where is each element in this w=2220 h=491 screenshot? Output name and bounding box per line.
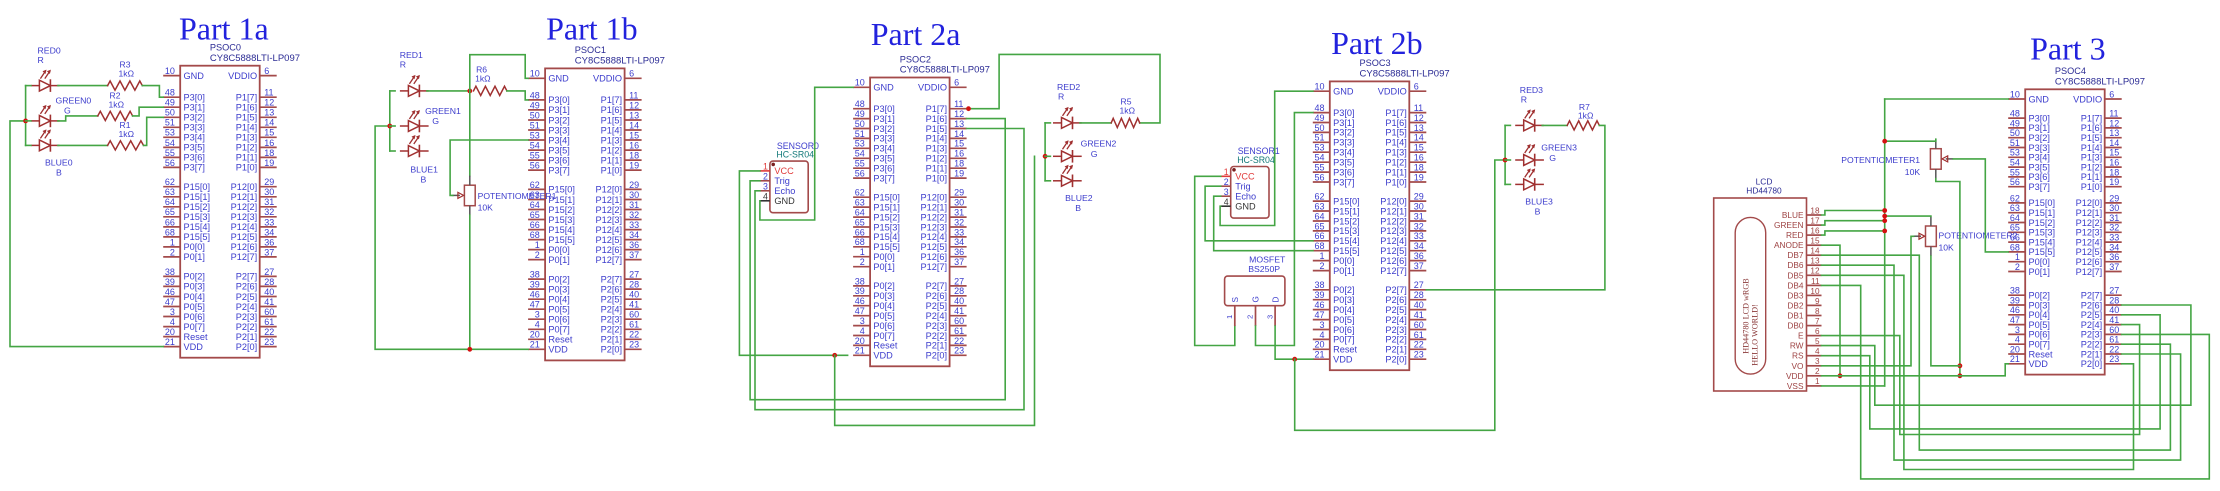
PSOC1 right pin group 1: pins 6	[593, 69, 642, 84]
PSOC1 right pin group 3: pins 29/30/31/32/33/34/36/37	[596, 180, 642, 265]
svg-text:38: 38	[1314, 280, 1324, 290]
svg-text:33: 33	[264, 217, 274, 227]
svg-text:P1[5]: P1[5]	[926, 124, 947, 134]
svg-text:P12[0]: P12[0]	[1380, 196, 1407, 206]
svg-text:54: 54	[855, 149, 865, 159]
wire VDD rail LCD pin2 to chip pin21	[1822, 364, 2009, 376]
svg-text:P15[4]: P15[4]	[184, 222, 211, 232]
svg-text:P1[1]: P1[1]	[236, 153, 257, 163]
wire RED0 cathode to R3	[58, 85, 108, 87]
svg-text:18: 18	[629, 151, 639, 161]
svg-text:56: 56	[855, 169, 865, 179]
svg-text:1: 1	[763, 162, 768, 172]
svg-text:P0[4]: P0[4]	[2029, 310, 2050, 320]
svg-text:11: 11	[264, 88, 273, 98]
svg-text:P3[5]: P3[5]	[1333, 158, 1354, 168]
svg-text:VDD: VDD	[184, 342, 204, 352]
svg-text:3: 3	[1224, 187, 1229, 197]
svg-text:28: 28	[2109, 295, 2119, 305]
svg-text:13: 13	[954, 119, 964, 129]
svg-text:55: 55	[1314, 163, 1324, 173]
svg-text:1: 1	[170, 237, 175, 247]
svg-text:P2[3]: P2[3]	[926, 321, 947, 331]
svg-text:P0[7]: P0[7]	[1333, 335, 1354, 345]
svg-text:P1[4]: P1[4]	[236, 123, 257, 133]
svg-text:63: 63	[855, 198, 865, 208]
PSOC2 right pin group 4: pins 27/28/40/41/60/61/22/23	[926, 276, 967, 360]
svg-text:28: 28	[629, 280, 639, 290]
svg-text:46: 46	[1314, 300, 1324, 310]
LCD pin 8 DB1	[1787, 307, 1821, 321]
svg-text:P3[7]: P3[7]	[2029, 182, 2050, 192]
LCD pin 3 VO	[1792, 357, 1822, 371]
svg-text:65: 65	[530, 210, 540, 220]
svg-text:53: 53	[2010, 148, 2020, 158]
svg-text:P1[0]: P1[0]	[1385, 177, 1406, 187]
svg-text:23: 23	[1414, 350, 1424, 360]
svg-text:DB6: DB6	[1787, 260, 1804, 270]
SENSOR1 pin 2 Trig	[1221, 177, 1251, 192]
svg-text:P0[0]: P0[0]	[548, 245, 569, 255]
svg-text:P12[2]: P12[2]	[921, 212, 948, 222]
svg-text:BLUE1: BLUE1	[410, 165, 438, 175]
junction pin 11 stub	[966, 106, 971, 111]
svg-text:P1[3]: P1[3]	[2081, 153, 2102, 163]
svg-text:P3[1]: P3[1]	[1333, 118, 1354, 128]
LED GREEN0 (G)	[31, 105, 60, 127]
svg-text:B: B	[1535, 206, 1541, 216]
svg-text:66: 66	[855, 227, 865, 237]
PSOC4 left pin group 2: pins 48/49/50/51/53/54/55/56	[2008, 109, 2050, 193]
wire pot2 bottom to pot1 riser	[1931, 256, 1960, 366]
svg-text:P2[4]: P2[4]	[2081, 320, 2102, 330]
wire LED bus RED2-BLUE2	[1044, 123, 1046, 181]
svg-text:P15[2]: P15[2]	[1333, 216, 1360, 226]
svg-text:68: 68	[530, 230, 540, 240]
svg-text:P0[1]: P0[1]	[1333, 266, 1354, 276]
svg-text:54: 54	[2010, 158, 2020, 168]
svg-text:VDD: VDD	[548, 345, 568, 355]
svg-text:P2[0]: P2[0]	[1385, 355, 1406, 365]
svg-text:G: G	[1549, 153, 1556, 163]
svg-text:P1[2]: P1[2]	[2081, 162, 2102, 172]
potentiometer POTENTIOMETER1 10K	[452, 176, 556, 216]
svg-text:1: 1	[1224, 167, 1229, 177]
svg-text:37: 37	[954, 257, 964, 267]
svg-text:P3[4]: P3[4]	[548, 135, 569, 145]
svg-text:P0[6]: P0[6]	[2029, 330, 2050, 340]
svg-text:49: 49	[530, 100, 540, 110]
svg-text:P15[1]: P15[1]	[184, 192, 211, 202]
svg-text:P2[3]: P2[3]	[2081, 330, 2102, 340]
svg-text:P3[6]: P3[6]	[873, 164, 894, 174]
svg-text:P1[1]: P1[1]	[2081, 172, 2102, 182]
SENSOR1 pin 4 GND	[1221, 197, 1256, 212]
svg-text:P15[1]: P15[1]	[873, 202, 900, 212]
svg-text:15: 15	[264, 128, 274, 138]
svg-text:68: 68	[165, 227, 175, 237]
svg-text:P3[7]: P3[7]	[1333, 177, 1354, 187]
svg-text:1kΩ: 1kΩ	[119, 129, 135, 139]
svg-text:37: 37	[629, 250, 639, 260]
LCD pin 1 VSS	[1787, 377, 1822, 391]
svg-text:P12[3]: P12[3]	[2076, 228, 2103, 238]
svg-text:51: 51	[2010, 138, 2020, 148]
svg-text:3: 3	[860, 316, 865, 326]
potentiometer POTENTIOMETER2 10K	[1914, 217, 2018, 257]
LCD pin 17 GREEN	[1774, 217, 1822, 231]
svg-text:48: 48	[1314, 103, 1324, 113]
LCD pin 18 BLUE	[1782, 206, 1822, 220]
svg-text:P2[0]: P2[0]	[236, 342, 257, 352]
svg-text:6: 6	[2109, 89, 2114, 99]
junction ANODE / VDD row	[1838, 373, 1843, 378]
svg-text:61: 61	[629, 320, 639, 330]
wire BLUE0 anode	[26, 144, 31, 146]
wire pot1 wiper to pin68	[1953, 159, 2008, 252]
svg-text:GREEN2: GREEN2	[1081, 139, 1117, 149]
svg-text:P2[3]: P2[3]	[236, 312, 257, 322]
BS250P pin 1 S	[1225, 297, 1240, 327]
svg-text:Part 2a: Part 2a	[871, 16, 961, 52]
svg-text:GND: GND	[774, 196, 795, 206]
LED BLUE2 (B)	[1053, 165, 1082, 187]
svg-text:6: 6	[264, 66, 269, 76]
svg-text:46: 46	[855, 296, 865, 306]
svg-text:60: 60	[954, 316, 964, 326]
PSOC3 left pin group 1: pins 10	[1313, 82, 1354, 97]
svg-text:1kΩ: 1kΩ	[1578, 111, 1594, 121]
wire SENSOR1 VCC to MOSFET source	[1195, 176, 1235, 345]
svg-text:4: 4	[170, 317, 175, 327]
svg-text:27: 27	[2109, 286, 2119, 296]
svg-text:P15[5]: P15[5]	[1333, 246, 1360, 256]
svg-text:P12[0]: P12[0]	[2076, 198, 2103, 208]
wire MOSFET drain to VDD rail	[1275, 326, 1313, 359]
svg-text:2: 2	[2015, 262, 2020, 272]
svg-text:10K: 10K	[1905, 167, 1921, 177]
svg-text:4: 4	[535, 320, 540, 330]
SENSOR0 pin 2 Trig	[760, 172, 790, 187]
svg-text:2: 2	[1246, 315, 1255, 319]
svg-text:P1[0]: P1[0]	[2081, 182, 2102, 192]
svg-text:31: 31	[2109, 213, 2119, 223]
svg-text:53: 53	[165, 128, 175, 138]
wire GND bus vertical	[1884, 99, 1886, 386]
svg-text:HC-SR04: HC-SR04	[776, 150, 814, 160]
svg-text:4: 4	[1319, 330, 1324, 340]
svg-text:11: 11	[1811, 277, 1820, 286]
svg-text:P15[5]: P15[5]	[873, 242, 900, 252]
svg-text:GREEN1: GREEN1	[425, 106, 461, 116]
svg-text:40: 40	[264, 287, 274, 297]
svg-text:D: D	[1271, 297, 1280, 303]
svg-text:GND: GND	[548, 74, 569, 84]
svg-text:47: 47	[2010, 315, 2020, 325]
svg-text:33: 33	[954, 227, 964, 237]
svg-text:16: 16	[629, 141, 639, 151]
wire SENSOR0 Echo loop to pin13	[755, 129, 1024, 410]
wire potentiometer bottom to VDD rail	[469, 215, 471, 349]
svg-text:P15[2]: P15[2]	[548, 205, 575, 215]
svg-text:55: 55	[165, 148, 175, 158]
svg-text:VSS: VSS	[1787, 381, 1804, 391]
svg-text:Reset: Reset	[184, 332, 208, 342]
svg-text:P1[6]: P1[6]	[926, 114, 947, 124]
svg-text:P0[5]: P0[5]	[1333, 315, 1354, 325]
svg-text:39: 39	[855, 286, 865, 296]
svg-text:P3[2]: P3[2]	[1333, 128, 1354, 138]
svg-text:P2[3]: P2[3]	[1385, 325, 1406, 335]
svg-text:41: 41	[629, 300, 639, 310]
PSOC0 left pin group 2: pins 48/49/50/51/53/54/55/56	[163, 88, 205, 173]
svg-text:P1[6]: P1[6]	[236, 103, 257, 113]
ultrasonic sensor SENSOR0 HC-SR04	[760, 141, 819, 213]
svg-text:49: 49	[2010, 118, 2020, 128]
svg-text:P15[0]: P15[0]	[2029, 198, 2056, 208]
wire LCD RW to chip (loop)	[1822, 305, 2191, 405]
svg-text:P0[7]: P0[7]	[184, 322, 205, 332]
svg-text:4: 4	[1815, 347, 1820, 356]
svg-text:P1[2]: P1[2]	[1385, 158, 1406, 168]
svg-text:P1[1]: P1[1]	[601, 155, 622, 165]
svg-text:P15[0]: P15[0]	[1333, 196, 1360, 206]
svg-text:Part 3: Part 3	[2030, 31, 2106, 67]
svg-text:66: 66	[165, 217, 175, 227]
svg-text:1: 1	[1815, 377, 1820, 386]
PSOC2 left pin group 4: pins 38/39/46/47/3/4/20/21	[853, 276, 898, 360]
junction LED bus / VDD rail (1b)	[387, 124, 392, 129]
svg-text:62: 62	[530, 180, 540, 190]
svg-text:18: 18	[1810, 206, 1820, 215]
svg-text:P12[1]: P12[1]	[596, 195, 623, 205]
svg-text:4: 4	[1224, 197, 1229, 207]
PSOC3 right pin group 2: pins 11/12/13/14/15/16/18/19	[1385, 103, 1426, 187]
svg-text:14: 14	[1810, 247, 1820, 256]
resistor R5 1kΩ	[1111, 97, 1140, 128]
svg-text:54: 54	[1314, 153, 1324, 163]
PSOC1 left pin group 2: pins 48/49/50/51/53/54/55/56	[528, 90, 570, 175]
svg-text:21: 21	[530, 340, 540, 350]
svg-text:P3[5]: P3[5]	[548, 145, 569, 155]
svg-text:P0[3]: P0[3]	[1333, 295, 1354, 305]
svg-text:Reset: Reset	[1333, 345, 1357, 355]
svg-text:55: 55	[2010, 167, 2020, 177]
svg-text:50: 50	[2010, 128, 2020, 138]
svg-text:PSOC1: PSOC1	[575, 45, 606, 55]
wire LCD DB6 to chip (loop)	[1822, 265, 2181, 460]
svg-text:P3[6]: P3[6]	[548, 155, 569, 165]
svg-text:P0[6]: P0[6]	[184, 312, 205, 322]
wire pin 11 to R5 top loop	[967, 54, 1160, 123]
resistor R1 1kΩ	[108, 120, 144, 150]
svg-text:16: 16	[954, 149, 964, 159]
PSoC chip PSOC2 CY8C5888LTI-LP097	[853, 54, 990, 366]
svg-text:3: 3	[1319, 320, 1324, 330]
svg-text:P12[5]: P12[5]	[596, 235, 623, 245]
svg-text:33: 33	[629, 220, 639, 230]
svg-text:P0[7]: P0[7]	[873, 331, 894, 341]
svg-text:2: 2	[1319, 261, 1324, 271]
svg-text:P12[7]: P12[7]	[921, 262, 948, 272]
svg-text:P15[4]: P15[4]	[548, 225, 575, 235]
svg-text:P12[4]: P12[4]	[1380, 236, 1407, 246]
svg-text:P15[1]: P15[1]	[2029, 208, 2056, 218]
svg-text:P15[3]: P15[3]	[184, 212, 211, 222]
svg-text:P1[5]: P1[5]	[601, 115, 622, 125]
PSOC4 left pin group 1: pins 10	[2008, 89, 2049, 104]
LED RED1 (R)	[400, 75, 429, 97]
svg-text:6: 6	[954, 78, 959, 88]
wire pot2 wiper to LCD VO	[1822, 236, 1914, 365]
svg-text:51: 51	[855, 129, 865, 139]
svg-text:12: 12	[1810, 267, 1820, 276]
svg-text:P12[4]: P12[4]	[231, 222, 258, 232]
svg-text:4: 4	[763, 192, 768, 202]
svg-text:64: 64	[530, 200, 540, 210]
svg-text:P0[0]: P0[0]	[2029, 257, 2050, 267]
wire SENSOR0 GND loop to pin10	[760, 87, 853, 220]
svg-text:P0[1]: P0[1]	[873, 262, 894, 272]
svg-text:P3[0]: P3[0]	[1333, 108, 1354, 118]
LCD pin 13 DB6	[1787, 257, 1821, 271]
ultrasonic sensor SENSOR1 HC-SR04	[1221, 146, 1280, 218]
svg-text:R: R	[38, 55, 44, 65]
wire pot1 top to GND bus	[1885, 139, 1936, 141]
svg-text:60: 60	[264, 307, 274, 317]
svg-text:61: 61	[264, 317, 274, 327]
PSOC0 left pin group 3: pins 62/63/64/65/66/68/1/2	[163, 177, 210, 262]
svg-text:GREEN3: GREEN3	[1541, 143, 1577, 153]
svg-text:P1[4]: P1[4]	[1385, 138, 1406, 148]
svg-text:3: 3	[535, 310, 540, 320]
svg-text:POTENTIOMETER1: POTENTIOMETER1	[478, 191, 557, 201]
svg-text:18: 18	[264, 148, 274, 158]
PSOC3 left pin group 2: pins 48/49/50/51/53/54/55/56	[1313, 103, 1355, 187]
svg-text:15: 15	[2109, 148, 2119, 158]
svg-text:P3[7]: P3[7]	[184, 163, 205, 173]
PSOC1 right pin group 2: pins 11/12/13/14/15/16/18/19	[601, 90, 642, 175]
wire LCD ANODE to VDD row	[1822, 245, 1841, 376]
PSOC0 right pin group 2: pins 11/12/13/14/15/16/18/19	[236, 88, 277, 173]
svg-text:3: 3	[170, 307, 175, 317]
svg-text:PSOC3: PSOC3	[1360, 58, 1391, 68]
svg-text:P2[5]: P2[5]	[601, 295, 622, 305]
svg-text:36: 36	[2109, 252, 2119, 262]
svg-text:P3[4]: P3[4]	[184, 133, 205, 143]
junction bus / LCD pin18	[1882, 208, 1887, 213]
svg-text:22: 22	[1414, 340, 1424, 350]
svg-text:P1[3]: P1[3]	[1385, 148, 1406, 158]
LCD pin 4 RS	[1792, 347, 1822, 361]
svg-text:P3[5]: P3[5]	[2029, 162, 2050, 172]
svg-text:P2[2]: P2[2]	[926, 331, 947, 341]
svg-text:21: 21	[165, 337, 175, 347]
svg-text:RED2: RED2	[1057, 82, 1080, 92]
svg-text:P1[3]: P1[3]	[236, 133, 257, 143]
svg-text:P3[3]: P3[3]	[184, 123, 205, 133]
svg-text:Trig: Trig	[1235, 182, 1250, 192]
junction VDD rail / LED-bus drop (2a)	[832, 353, 837, 358]
svg-text:12: 12	[2109, 118, 2119, 128]
svg-text:CY8C5888LTI-LP097: CY8C5888LTI-LP097	[900, 65, 990, 76]
wire LCD pin17 to GND bus	[1822, 221, 1885, 225]
svg-text:34: 34	[954, 237, 964, 247]
svg-text:ANODE: ANODE	[1774, 240, 1804, 250]
wire LCD pin18 to GND bus	[1822, 211, 1885, 216]
resistor R7 1kΩ	[1567, 102, 1599, 130]
svg-text:13: 13	[1810, 257, 1820, 266]
svg-text:15: 15	[1810, 237, 1820, 246]
junction pot bottom / VDD rail	[467, 347, 472, 352]
svg-text:53: 53	[530, 130, 540, 140]
svg-text:18: 18	[1414, 163, 1424, 173]
svg-text:15: 15	[954, 139, 964, 149]
svg-text:G: G	[1252, 296, 1261, 302]
svg-text:6: 6	[1414, 82, 1419, 92]
svg-text:29: 29	[954, 188, 964, 198]
svg-text:47: 47	[1314, 310, 1324, 320]
svg-text:P12[1]: P12[1]	[921, 202, 948, 212]
svg-text:DB5: DB5	[1787, 270, 1804, 280]
svg-text:HD44780 LCD wRGB: HD44780 LCD wRGB	[1741, 278, 1750, 354]
svg-text:GND: GND	[873, 83, 894, 93]
svg-text:PSOC0: PSOC0	[210, 43, 241, 53]
svg-text:P12[6]: P12[6]	[921, 252, 948, 262]
svg-text:P0[6]: P0[6]	[548, 315, 569, 325]
svg-text:RS: RS	[1792, 351, 1804, 361]
LCD pin 2 VDD	[1786, 367, 1822, 381]
svg-text:51: 51	[530, 120, 540, 130]
wire junction to GND pin10 loop	[470, 55, 528, 91]
SENSOR0 pin 3 Echo	[760, 182, 795, 197]
svg-text:15: 15	[629, 130, 639, 140]
svg-text:P15[5]: P15[5]	[184, 232, 211, 242]
wire RED2 anode	[1045, 122, 1050, 124]
svg-text:47: 47	[530, 300, 540, 310]
svg-text:P12[6]: P12[6]	[231, 242, 258, 252]
svg-text:P2[6]: P2[6]	[926, 291, 947, 301]
wire RED1 junction down to potentiometer top	[469, 91, 471, 176]
svg-text:P0[1]: P0[1]	[184, 252, 205, 262]
wire LCD DB5 to chip (loop)	[1822, 275, 2134, 469]
svg-text:54: 54	[165, 138, 175, 148]
svg-text:P3[4]: P3[4]	[2029, 153, 2050, 163]
svg-text:P2[0]: P2[0]	[601, 345, 622, 355]
svg-text:P2[1]: P2[1]	[2081, 349, 2102, 359]
svg-text:49: 49	[855, 109, 865, 119]
svg-text:P3[3]: P3[3]	[873, 134, 894, 144]
LED BLUE1 (B)	[400, 135, 429, 157]
svg-text:1: 1	[1225, 315, 1234, 319]
svg-text:P15[3]: P15[3]	[548, 215, 575, 225]
svg-text:1kΩ: 1kΩ	[475, 73, 491, 83]
junction bus / LCD pin17	[1882, 218, 1887, 223]
svg-text:38: 38	[855, 276, 865, 286]
wire LED bus RED1-BLUE1	[389, 91, 391, 151]
svg-text:P1[0]: P1[0]	[236, 163, 257, 173]
svg-text:39: 39	[530, 280, 540, 290]
svg-text:Part 1a: Part 1a	[179, 10, 269, 46]
svg-text:6: 6	[1815, 327, 1820, 336]
svg-text:11: 11	[954, 99, 963, 109]
svg-text:P15[4]: P15[4]	[873, 232, 900, 242]
svg-text:P12[3]: P12[3]	[596, 215, 623, 225]
svg-text:47: 47	[855, 306, 865, 316]
svg-text:P1[6]: P1[6]	[601, 105, 622, 115]
svg-text:P12[5]: P12[5]	[2076, 247, 2103, 257]
wire SENSOR0 VCC to VDD rail	[739, 171, 847, 355]
